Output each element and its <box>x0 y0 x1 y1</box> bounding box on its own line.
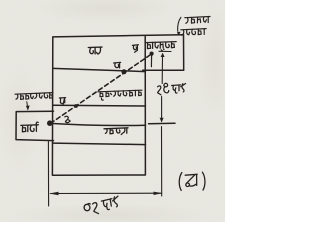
line L2 ceiling bottom <box>53 68 146 71</box>
point letter NGO near fly <box>65 116 70 122</box>
dimension 24ft: top tick in spider box <box>159 50 171 52</box>
text: makorsha (spider) <box>146 42 176 51</box>
label (ko) bottom right <box>179 172 205 190</box>
point letter NO on L2 <box>114 62 121 68</box>
text: dokkhin (south) <box>185 17 210 24</box>
spider box (south wall) <box>143 35 184 70</box>
upper dim line segment <box>161 57 163 84</box>
left extension line from fly down <box>47 142 49 207</box>
right extension line down to 32ft dim <box>161 127 163 197</box>
tiny dot above tick <box>163 49 165 51</box>
text: 24 ft <box>158 83 186 95</box>
dashed shortest path fly->spider <box>51 54 152 123</box>
line L5 floor bottom <box>53 143 146 145</box>
pointer curve from south-wall label to spider box <box>178 17 181 31</box>
text: uttor deoal (north wall) <box>15 93 53 100</box>
text: purbo deoal (east wall) <box>98 90 142 100</box>
north-wall label arrow down <box>27 102 28 109</box>
spider dot <box>150 52 154 56</box>
lower dim line segment <box>161 97 163 119</box>
spider hanging tail <box>150 56 152 67</box>
text: mejhe (floor) <box>104 128 128 135</box>
junction dot on L2 <box>122 69 127 74</box>
line L4 fly level <box>50 123 146 125</box>
text: deoal (wall, under south) <box>181 29 206 36</box>
32ft dimension line <box>51 192 162 194</box>
text: machhi (fly) <box>21 122 39 132</box>
text: chhaad (ceiling) <box>88 47 102 54</box>
fly dot (point on north wall) <box>47 120 53 126</box>
right arrow head <box>154 192 163 195</box>
up arrow head <box>161 53 165 57</box>
down arrow head <box>160 118 164 123</box>
junction dot on L3 <box>74 104 78 108</box>
outer rectangle of unfolded room <box>52 35 183 176</box>
point letter KHO near spider <box>132 45 138 52</box>
left arrow head <box>49 192 58 195</box>
point letter MO on L3 <box>59 98 65 104</box>
text: 32 ft (slightly rotated) <box>83 196 120 216</box>
line L3 east wall bottom <box>53 104 146 107</box>
fly box (north wall) <box>16 111 54 140</box>
line L4 right extension tick <box>149 122 176 125</box>
